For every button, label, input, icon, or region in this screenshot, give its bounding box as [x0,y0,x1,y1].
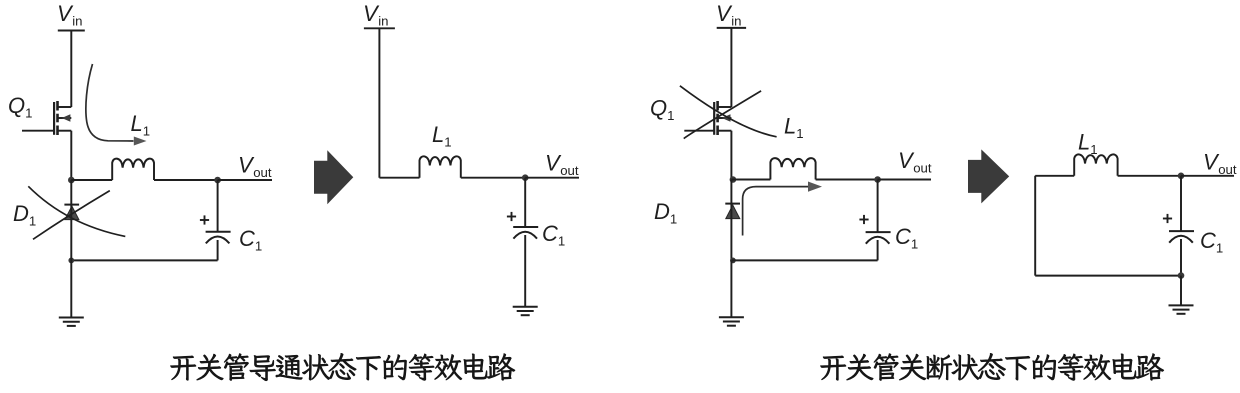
wire capacitor to bottom node (circuit 4) [1180,239,1182,276]
cross-out X over Q1 (circuit 3) [680,86,777,137]
Vout node junction dot (circuit 4) [1178,173,1185,180]
svg-text:Vin: Vin [363,1,388,29]
wire inductor to Vout node (circuit 1) [154,179,218,181]
svg-text:L1: L1 [432,122,452,150]
block arrow 1 [314,150,353,204]
bottom rail wire (circuit 4) [1035,275,1181,277]
current arrow through D1 into L1 (circuit 3) [743,187,808,236]
capacitor C1 (circuit 4) [1169,230,1194,232]
svg-text:L1: L1 [131,111,151,139]
inductor L1 (circuit 2) [420,156,461,177]
svg-text:D1: D1 [13,201,36,229]
wire node to capacitor (circuit 2) [524,178,526,227]
wire source to node A (circuit 3) [730,131,732,180]
wire node A to inductor (circuit 1) [71,179,112,181]
svg-text:C1: C1 [1200,228,1223,256]
node B junction dot (circuit 1) [68,258,74,264]
wire Vout node to capacitor (circuit 3) [877,180,879,233]
cross-out X over D1 (circuit 1) [28,186,125,236]
ground (circuit 4) [1169,304,1194,306]
Vout node junction dot (circuit 1) [214,177,221,184]
Vin supply bar (circuit 1) [58,30,85,32]
svg-text:L1: L1 [1078,130,1098,158]
svg-text:Vout: Vout [545,151,579,179]
bottom rail wire (circuit 3) [731,259,877,261]
wire Vin down (circuit 2) [378,28,380,177]
Vin supply bar (circuit 3) [717,27,746,29]
wire Vout node to capacitor (circuit 4) [1180,176,1182,231]
wire Vout stub (circuit 4) [1181,175,1234,177]
svg-text:Vout: Vout [1203,150,1237,178]
svg-text:Vout: Vout [238,153,272,181]
bottom junction dot (circuit 4) [1178,272,1185,279]
svg-text:D1: D1 [654,199,677,227]
wire left side of loop (circuit 4) [1034,176,1036,276]
node B junction dot (circuit 3) [730,258,736,264]
wire node A to node B (circuit 3) [730,180,732,261]
wire inductor to Vout node (circuit 2) [461,177,525,179]
svg-text:L1: L1 [784,114,804,142]
wire node A to inductor (circuit 3) [731,179,770,181]
wire source to node A (circuit 1) [70,131,72,180]
ground (circuit 3) [719,316,744,318]
svg-text:C1: C1 [239,226,262,254]
diode D1 (circuit 3) [725,203,740,205]
capacitor C1 (circuit 1) [206,231,231,233]
wire inductor to Vout node (circuit 3) [816,179,878,181]
svg-text:Vin: Vin [57,1,82,29]
transistor Q1 (circuit 1) [22,101,71,135]
wire capacitor to bottom rail (circuit 1) [217,240,219,260]
svg-text:C1: C1 [895,224,918,252]
svg-text:Vout: Vout [898,148,932,176]
plus polarity mark (circuit 1) [200,219,209,221]
wire Vin to drain (circuit 1) [70,31,72,108]
node A junction dot (circuit 1) [68,177,75,184]
Vin supply bar (circuit 2) [364,27,395,29]
wire capacitor to bottom rail (circuit 3) [877,240,879,260]
node A junction dot (circuit 3) [730,176,737,183]
wire to inductor (circuit 2) [379,177,419,179]
svg-text:C1: C1 [542,221,565,249]
inductor L1 (circuit 3) [770,158,815,179]
wire Vout stub (circuit 2) [525,177,579,179]
wire top rail to inductor (circuit 4) [1035,175,1074,177]
current arrow through Q1 into L1 (circuit 1) [86,64,134,141]
caption: 开关管导通状态下的等效电路 [171,353,515,380]
wire node B to ground (circuit 3) [730,260,732,317]
bottom rail wire (circuit 1) [71,259,217,261]
plus polarity mark (circuit 2) [507,216,516,218]
inductor L1 (circuit 1) [112,159,154,180]
svg-text:Vin: Vin [716,1,741,29]
capacitor C1 (circuit 2) [513,226,538,228]
wire Vout stub (circuit 3) [878,179,931,181]
wire inductor to Vout node (circuit 4) [1118,175,1181,177]
block arrow 2 [968,149,1009,203]
Vout node junction dot (circuit 3) [874,176,881,183]
diode D1 crossed out (circuit 1) [64,204,79,206]
plus polarity mark (circuit 4) [1163,218,1172,220]
wire Vin to drain (circuit 3) [730,28,732,107]
ground (circuit 1) [59,317,84,319]
wire Vout stub (circuit 1) [218,179,272,181]
transistor Q1 crossed out (circuit 3) [684,101,731,135]
inductor L1 (circuit 4) [1074,154,1117,175]
svg-text:Q1: Q1 [8,93,32,121]
wire node B to ground (circuit 1) [70,180,72,318]
wire Vout node to capacitor (circuit 1) [217,180,219,232]
caption: 开关管关断状态下的等效电路 [821,353,1164,380]
wire to ground (circuit 4) [1180,276,1182,306]
capacitor C1 (circuit 3) [866,231,891,233]
plus polarity mark (circuit 3) [859,219,868,221]
Vout node junction dot (circuit 2) [522,174,529,181]
wire capacitor to ground (circuit 2) [524,235,526,307]
svg-text:Q1: Q1 [650,96,674,124]
ground (circuit 2) [513,306,538,308]
